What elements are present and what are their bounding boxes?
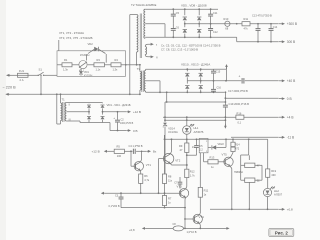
svg-text:С12: С12 bbox=[213, 31, 218, 34]
capacitor C14 bbox=[269, 24, 278, 43]
wire +12V output bbox=[103, 111, 127, 113]
svg-text:+: + bbox=[239, 75, 241, 79]
wire ground rail small bbox=[121, 207, 186, 209]
wire HV top rail bbox=[145, 8, 218, 10]
wire box row entry bbox=[57, 64, 62, 66]
diode VD3a bbox=[101, 103, 105, 113]
svg-text:R10: R10 bbox=[224, 17, 229, 21]
label T1 bbox=[62, 98, 66, 102]
terminal arrow +0.8V bbox=[279, 208, 293, 212]
LED HL1 bbox=[183, 117, 195, 143]
transformer T2 core bbox=[140, 14, 141, 59]
wire R9 top bbox=[186, 139, 188, 143]
svg-text:+300 В: +300 В bbox=[287, 22, 297, 26]
capacitor C8 bead bbox=[173, 223, 197, 234]
transformer T2 fan winding bbox=[145, 43, 158, 59]
wire VT2 emitter bbox=[170, 163, 188, 166]
zener VD14 bbox=[163, 117, 167, 174]
svg-text:R16: R16 bbox=[237, 111, 242, 115]
svg-text:R5: R5 bbox=[117, 145, 121, 149]
svg-text:Т2 ТАН44-220/80в: Т2 ТАН44-220/80в bbox=[131, 3, 157, 7]
svg-text:R19: R19 bbox=[271, 169, 276, 173]
label HL2 bbox=[274, 189, 283, 197]
wire VT4 emitter bbox=[199, 223, 201, 229]
diode VD8 bbox=[197, 24, 201, 38]
svg-text:HL2: HL2 bbox=[274, 189, 279, 193]
diode VD12 bbox=[199, 68, 203, 81]
diode VD2 on box top bbox=[80, 42, 106, 57]
diode VD6 bbox=[183, 24, 187, 38]
svg-text:С13 470,0*350 В: С13 470,0*350 В bbox=[252, 14, 272, 18]
resistor R1 bbox=[62, 58, 72, 71]
wire VT3 emitter bbox=[184, 197, 186, 229]
note caps line 2 bbox=[161, 48, 198, 52]
terminal arrow input bbox=[101, 192, 105, 195]
wire LV top rail bbox=[146, 69, 226, 70]
transformer T2 primary winding bbox=[136, 15, 138, 66]
wire R4 to box edge bbox=[121, 64, 127, 66]
svg-text:1000,0*25 В: 1000,0*25 В bbox=[120, 122, 134, 125]
svg-text:VT5: VT5 bbox=[222, 152, 228, 156]
wire aux line bbox=[164, 119, 225, 121]
svg-text:АЛ307: АЛ307 bbox=[274, 193, 283, 197]
resistor R5 bbox=[114, 145, 124, 158]
diode VD1a bbox=[87, 103, 91, 112]
wire +12V to R5 bbox=[108, 150, 114, 152]
svg-text:С11: С11 bbox=[213, 12, 218, 15]
wire R12 top bbox=[186, 153, 188, 170]
svg-text:R12: R12 bbox=[190, 170, 195, 174]
terminal arrow aux out bbox=[147, 150, 157, 154]
wire T1 sec top tap bbox=[66, 102, 102, 104]
svg-text:0,1*200 В: 0,1*200 В bbox=[109, 205, 120, 208]
wire zener rail riser bbox=[164, 135, 166, 139]
transistor VT4 bbox=[185, 214, 204, 223]
wire R11a top bbox=[199, 153, 201, 188]
wire C19 bus bbox=[166, 101, 227, 103]
svg-text:R7: R7 bbox=[168, 197, 172, 201]
wire LV bottom rail bbox=[146, 91, 225, 93]
capacitor C5 bbox=[171, 8, 180, 23]
svg-text:+: + bbox=[113, 116, 115, 120]
label winding II bbox=[69, 103, 71, 106]
wire lower output rail bbox=[210, 208, 279, 210]
transistor VT3 bbox=[177, 184, 189, 198]
diode VD13 bbox=[199, 81, 203, 93]
terminal arrow 300V return bbox=[279, 40, 295, 44]
wire R9 C5 join bbox=[186, 153, 197, 156]
svg-text:~ 220 В: ~ 220 В bbox=[3, 86, 17, 90]
transformer T1 core bbox=[63, 102, 64, 122]
resistor R16 bbox=[236, 111, 244, 124]
label +12V feed bbox=[92, 150, 100, 154]
wire R12 bottom bbox=[186, 178, 188, 187]
wire C4 to out arrow bbox=[136, 150, 147, 152]
label FU1 bbox=[19, 69, 25, 82]
transformer T2 secondary winding a bbox=[144, 9, 145, 38]
wire VT2 collector bbox=[170, 139, 171, 154]
wire mains line L2 bbox=[6, 93, 140, 95]
diode VD1 bbox=[79, 69, 93, 78]
terminal arrow +12V out bbox=[127, 110, 141, 114]
svg-text:1,0*16 В: 1,0*16 В bbox=[187, 230, 197, 234]
wire +4V line bbox=[163, 116, 236, 118]
svg-text:+12 В: +12 В bbox=[133, 110, 141, 114]
wire T2 primary feed bbox=[129, 15, 137, 96]
terminal arrow bottom left bbox=[142, 227, 146, 230]
resistor R18 bbox=[241, 178, 260, 183]
svg-text:+4 В: +4 В bbox=[287, 116, 294, 120]
resistor R11a bbox=[198, 187, 209, 197]
label VD10-VD13 types bbox=[181, 62, 210, 66]
svg-text:С15: С15 bbox=[216, 70, 221, 73]
svg-text:Т1: Т1 bbox=[62, 98, 66, 102]
switch S1 bbox=[37, 67, 44, 76]
svg-text:VD10...VD13 - Д245А: VD10...VD13 - Д245А bbox=[181, 62, 210, 66]
terminal arrow bottom right bbox=[226, 227, 230, 230]
wire HV bottom rail bbox=[145, 36, 218, 38]
capacitor C3 bbox=[109, 193, 124, 208]
terminal arrow mains L2 bbox=[6, 93, 10, 96]
label T3 bbox=[137, 67, 141, 71]
svg-text:С16: С16 bbox=[217, 87, 222, 90]
wire 0V output bbox=[103, 123, 127, 131]
wire -11V line bbox=[231, 136, 279, 138]
terminal arrow +4V bbox=[279, 116, 293, 120]
capacitor C2 bbox=[113, 112, 120, 132]
svg-text:VD5...VD8 - Д1008: VD5...VD8 - Д1008 bbox=[181, 3, 207, 7]
svg-text:VD22: VD22 bbox=[218, 143, 225, 146]
transformer T1 secondary winding bbox=[65, 103, 66, 121]
svg-text:-11 В: -11 В bbox=[287, 136, 294, 140]
label transistor types line 2 bbox=[59, 36, 93, 40]
label ~220 V bbox=[3, 86, 17, 90]
svg-text:R11: R11 bbox=[244, 17, 249, 21]
svg-text:VD1: VD1 bbox=[84, 71, 89, 74]
relay K1 box bbox=[192, 138, 208, 153]
svg-text:HL1: HL1 bbox=[194, 126, 199, 130]
wire R5 to C4 bbox=[124, 150, 132, 152]
note caps line 1 bbox=[161, 43, 221, 47]
capacitor C4 bbox=[133, 149, 135, 154]
wire VT3 collector bbox=[186, 187, 187, 189]
svg-text:VD2: VD2 bbox=[88, 42, 94, 46]
svg-text:VT4: VT4 bbox=[199, 215, 205, 219]
terminal arrow +300V bbox=[279, 22, 297, 26]
wire VT4 collector bbox=[199, 197, 200, 215]
wire VD2 branch right bbox=[105, 54, 107, 63]
wire switch to L2 bbox=[40, 75, 42, 95]
svg-text:R9: R9 bbox=[179, 144, 183, 148]
transistor VT5 bbox=[218, 152, 233, 166]
wire R11 to +300 output bbox=[250, 23, 279, 25]
svg-text:VT3: VT3 bbox=[177, 184, 183, 188]
wire +40V node up arrow bbox=[225, 64, 228, 82]
wire T1 primary top bbox=[60, 93, 62, 103]
wire VT1 emitter bbox=[139, 170, 141, 174]
wire T1 sec bottom tap bbox=[66, 121, 89, 123]
resistor R8 bbox=[162, 135, 172, 193]
capacitor C6 bbox=[171, 24, 180, 39]
capacitor C13 bbox=[256, 24, 261, 43]
svg-text:С17 2000,0*50 В: С17 2000,0*50 В bbox=[228, 89, 248, 93]
svg-text:Рис. 2: Рис. 2 bbox=[275, 231, 289, 236]
label C13 value bbox=[252, 14, 272, 18]
svg-text:300 В: 300 В bbox=[287, 40, 295, 44]
diode VD4a bbox=[101, 112, 105, 123]
svg-text:АЛ307Б: АЛ307Б bbox=[194, 130, 204, 134]
svg-text:С19 2000,0*16 В: С19 2000,0*16 В bbox=[229, 102, 250, 106]
label VD5-VD8 types bbox=[181, 3, 207, 7]
transformer T1 primary winding bbox=[61, 103, 62, 121]
wire 0V line bbox=[225, 97, 279, 99]
terminal arrow -11V bbox=[279, 136, 294, 140]
wire R6 to input line bbox=[140, 183, 142, 194]
diode VD7 bbox=[197, 8, 201, 23]
resistor R19 bbox=[266, 139, 277, 177]
resistor R17 bbox=[241, 163, 260, 168]
figure label box bbox=[269, 228, 294, 236]
svg-text:КС133А: КС133А bbox=[168, 130, 178, 134]
svg-text:VD1...VD4 - Д231Б: VD1...VD4 - Д231Б bbox=[107, 103, 131, 107]
resistor R6 bbox=[139, 174, 150, 183]
svg-text:R6: R6 bbox=[144, 174, 148, 178]
wire VT5 collector bbox=[230, 153, 233, 158]
transistor contact K2.1 bbox=[79, 61, 87, 73]
svg-text:2 А: 2 А bbox=[20, 78, 24, 82]
terminal arrow +12V feed bbox=[104, 150, 108, 153]
wire T3 primary return bbox=[139, 90, 141, 95]
svg-text:R3: R3 bbox=[97, 58, 101, 62]
wire amp top rail bbox=[164, 138, 268, 140]
capacitor C5a bbox=[194, 139, 203, 152]
diode VD5 bbox=[183, 8, 187, 23]
resistor R13 bbox=[204, 153, 218, 169]
capacitor C11 bbox=[208, 8, 218, 23]
svg-text:R4: R4 bbox=[115, 58, 119, 62]
label transistor types line 1 bbox=[59, 31, 84, 35]
wire R16 to +4V output bbox=[244, 116, 279, 118]
transformer T3 secondary winding bbox=[144, 71, 145, 92]
capacitor C7 bbox=[174, 177, 182, 189]
wire to +40V output bbox=[245, 80, 279, 82]
wire bottom rail bbox=[146, 227, 226, 229]
transformer T3 primary winding bbox=[140, 72, 141, 91]
label C4 value bbox=[129, 144, 143, 148]
wire R10 to R11 bbox=[230, 23, 242, 25]
svg-text:2,2: 2,2 bbox=[199, 149, 203, 152]
LED HL2 bbox=[263, 177, 275, 210]
capacitor C17 bbox=[228, 75, 248, 93]
fuse FU1 bbox=[18, 73, 29, 77]
terminal arrow mains L1 bbox=[6, 74, 10, 77]
transformer T3 core bbox=[142, 71, 143, 93]
regulator box outline bbox=[57, 51, 126, 77]
wire T1 sec mid tap bbox=[66, 111, 90, 113]
diode VD22 bbox=[208, 143, 226, 150]
label C19 value bbox=[229, 102, 250, 106]
wire input line bbox=[105, 192, 181, 194]
svg-text:КУ202Н: КУ202Н bbox=[84, 75, 93, 77]
svg-text:R11: R11 bbox=[204, 188, 209, 192]
wire HV mid node bbox=[184, 23, 225, 25]
svg-text:VD14: VD14 bbox=[168, 126, 175, 130]
svg-text:ПЭВ25А: ПЭВ25А bbox=[234, 171, 243, 174]
svg-text:0,1: 0,1 bbox=[238, 120, 242, 124]
svg-text:+12 В: +12 В bbox=[92, 150, 100, 154]
resistor R14 pair bbox=[231, 139, 240, 152]
wire VT1 collector bbox=[140, 151, 142, 163]
svg-text:VT1, VT2 - КТ342А: VT1, VT2 - КТ342А bbox=[59, 31, 84, 35]
svg-text:R14: R14 bbox=[235, 144, 240, 147]
capacitor C15 bbox=[211, 69, 221, 81]
svg-text:0 В: 0 В bbox=[133, 129, 138, 133]
fuse R10 bead bbox=[224, 17, 231, 31]
svg-text:VT3, VT4, VT5 - КТ3102Б: VT3, VT4, VT5 - КТ3102Б bbox=[59, 36, 93, 40]
svg-text:Сх. С5, С6, С11, С12 - 82П*100: Сх. С5, С6, С11, С12 - 82П*100 В С14 0,1… bbox=[161, 43, 221, 47]
label bottom left bbox=[129, 228, 135, 232]
wire VT5 emitter bbox=[230, 166, 233, 210]
svg-text:С14: С14 bbox=[273, 26, 278, 29]
label winding III bbox=[69, 118, 71, 121]
svg-text:0 В: 0 В bbox=[287, 97, 292, 101]
svg-text:С7, С8, С12, С13 - 0,1*1000 В: С7, С8, С12, С13 - 0,1*1000 В bbox=[161, 48, 198, 52]
wire R1 to VT contact bbox=[72, 64, 79, 66]
svg-text:430: 430 bbox=[271, 173, 276, 177]
svg-text:+40 В: +40 В bbox=[287, 79, 295, 83]
wire VD2 branch left bbox=[59, 40, 87, 61]
svg-text:R8: R8 bbox=[168, 174, 172, 178]
resistor R4 bbox=[111, 58, 121, 71]
wire feed to R17 R18 bbox=[241, 139, 249, 155]
label VD14 bbox=[168, 126, 178, 134]
svg-text:R13: R13 bbox=[210, 156, 215, 160]
terminal arrow 0V bbox=[279, 97, 292, 101]
capacitor C12 bbox=[208, 24, 218, 38]
resistor R3 bbox=[94, 58, 105, 71]
terminal arrow +40V bbox=[279, 79, 295, 83]
svg-text:+0,8: +0,8 bbox=[129, 228, 135, 232]
svg-text:FU1: FU1 bbox=[19, 69, 25, 73]
wire LV tap bbox=[146, 81, 160, 93]
wire riser to indicator bbox=[165, 92, 167, 117]
label T2 type bbox=[131, 3, 157, 7]
label C2 bbox=[120, 118, 134, 125]
wire left drop R17 R18 bbox=[234, 155, 243, 180]
wire VD22 riser bbox=[225, 139, 227, 147]
terminal arrow 0V out bbox=[127, 129, 138, 133]
svg-text:100: 100 bbox=[117, 154, 122, 158]
svg-text:VT1: VT1 bbox=[146, 163, 152, 167]
wire zero bus drop bbox=[225, 91, 227, 101]
diode VD10 bbox=[185, 68, 189, 81]
wire right join R17 R18 bbox=[255, 165, 262, 180]
capacitor C16 bbox=[211, 81, 222, 93]
label HL1 bbox=[194, 126, 204, 134]
svg-text:+0,8: +0,8 bbox=[287, 208, 293, 212]
transistor VT2 bbox=[158, 153, 181, 194]
wire R3 to R4 bbox=[105, 64, 112, 66]
wire LV mid output bbox=[187, 80, 241, 82]
svg-text:R1: R1 bbox=[64, 58, 68, 62]
diode VD2a bbox=[87, 112, 91, 123]
svg-text:С4 1,0*50 В: С4 1,0*50 В bbox=[129, 144, 143, 148]
wire R18 to rail bbox=[248, 155, 250, 210]
wire bridge bottom bbox=[89, 122, 103, 124]
svg-text:VT2: VT2 bbox=[175, 159, 181, 163]
wire contact to R3 bbox=[88, 64, 95, 66]
resistor R12 bbox=[185, 169, 196, 177]
transistor VT1 bbox=[131, 151, 151, 171]
resistor R11 bbox=[242, 17, 250, 31]
resistor R9 bbox=[179, 143, 189, 152]
diode VD11 bbox=[185, 81, 189, 93]
wire HV return bbox=[218, 37, 279, 41]
wire T1 primary bottom bbox=[56, 93, 61, 124]
terminal down arrow bbox=[224, 124, 227, 129]
wire HV tap bbox=[145, 24, 165, 38]
wire regulator to T3 primary bbox=[126, 64, 141, 72]
resistor R7 bbox=[162, 193, 171, 207]
svg-text:КУ202Н: КУ202Н bbox=[80, 53, 90, 57]
label VD1-VD4 types bbox=[107, 103, 131, 107]
svg-text:S1: S1 bbox=[39, 67, 43, 71]
wire mains line L1 bbox=[7, 75, 58, 76]
capacitor C19 bbox=[223, 102, 228, 126]
svg-text:472: 472 bbox=[235, 147, 240, 150]
